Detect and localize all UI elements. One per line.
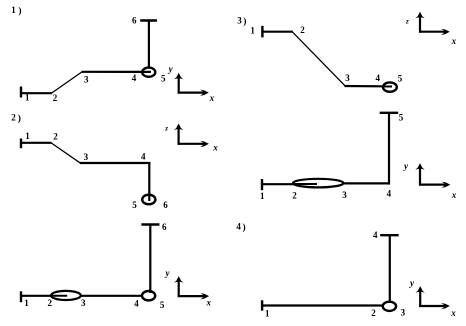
svg-text:2: 2 (48, 298, 53, 308)
fig2 node label 4 (141, 152, 146, 162)
svg-text:6: 6 (132, 16, 137, 26)
svg-text:z: z (164, 125, 168, 133)
mid-right node label 1 (260, 191, 265, 201)
fig1 node label 2 (53, 93, 58, 103)
svg-text:3: 3 (84, 152, 89, 162)
bottom-left node label 2 (48, 298, 53, 308)
svg-text:5: 5 (399, 113, 404, 123)
svg-text:1: 1 (250, 25, 255, 35)
mid-right node label 3 (342, 190, 347, 200)
figure 3 title "3 )" (237, 15, 246, 27)
svg-text:1: 1 (11, 5, 16, 15)
bottom-left axes origin (174, 276, 209, 299)
mid-right link 3-4 (343, 182, 390, 184)
fig4 joint circle node 3 (383, 302, 396, 311)
fig3 link 3-4 (344, 85, 392, 88)
fig2 node label 6 (163, 200, 168, 210)
svg-text:2: 2 (53, 131, 58, 141)
fig1 axis label y (168, 64, 174, 74)
svg-text:1: 1 (25, 93, 30, 103)
fig4 axis label y (409, 278, 415, 288)
svg-text:4: 4 (132, 73, 137, 83)
svg-text:3: 3 (81, 298, 86, 308)
bottom-left sliding joint ellipse 2-3 (51, 291, 81, 300)
svg-text:5: 5 (161, 74, 166, 84)
fig1 link 1-2 (20, 92, 52, 94)
fig4 node label 2 (371, 308, 376, 318)
figure 1 title "1 )" (11, 5, 21, 17)
bottom-left ground tick node 1 (20, 291, 22, 302)
fig1 node label 6 (132, 16, 137, 26)
svg-text:3: 3 (345, 73, 350, 83)
svg-text:x: x (451, 190, 457, 200)
mid-right link 1-2 (261, 183, 317, 185)
fig1 link 3-4 (82, 71, 151, 73)
fig4 node label 3 (401, 308, 406, 318)
bottom-left node label 5 (160, 300, 165, 310)
svg-text:3: 3 (342, 190, 347, 200)
svg-text:4: 4 (373, 230, 378, 240)
fig4 node label 4 (373, 230, 378, 240)
svg-text:4: 4 (141, 152, 146, 162)
fig1 link 2-3 diagonal (51, 72, 82, 94)
svg-text:): ) (18, 6, 21, 17)
fig1 node label 5 (161, 74, 166, 84)
fig3 link 2-3 diagonal (292, 32, 345, 86)
fig4 ground tick node 4 (380, 234, 399, 236)
svg-text:x: x (450, 308, 456, 318)
fig1 ground tick node 6 (140, 19, 157, 21)
fig3 node label 1 (250, 25, 255, 35)
fig4 link 1-2 (261, 304, 392, 306)
mid-right axes origin (415, 163, 450, 188)
fig1 node label 3 (84, 74, 89, 84)
svg-text:6: 6 (162, 222, 167, 232)
svg-text:5: 5 (132, 200, 137, 210)
svg-text:2: 2 (53, 93, 58, 103)
fig1 node label 1 (25, 93, 30, 103)
svg-text:2: 2 (292, 190, 297, 200)
svg-text:1: 1 (260, 191, 265, 201)
mid-right link 4-5 vertical (388, 113, 390, 185)
mid-right sliding joint ellipse 2-3 (293, 179, 344, 188)
fig1 joint circle node 5 (142, 68, 155, 77)
fig1 node label 4 (132, 73, 137, 83)
fig2 axes origin (174, 124, 209, 148)
bottom-left link 5-6 vertical (149, 225, 151, 294)
svg-text:): ) (243, 222, 246, 233)
fig3 link 1-2 (261, 31, 292, 33)
bottom-left link 1-2 (20, 295, 52, 297)
bottom-left axis label y (165, 268, 171, 278)
bottom-left node label 4 (134, 299, 139, 309)
fig3 node label 2 (300, 25, 305, 35)
bottom-left node label 6 (162, 222, 167, 232)
fig2 axis label z (164, 125, 168, 133)
bottom-left joint circle node 5 (142, 291, 155, 300)
fig3 joint circle node 5 (383, 82, 397, 91)
svg-text:): ) (18, 113, 21, 124)
fig4 axes origin (416, 286, 450, 309)
mid-right inner link segment inside ellipse (293, 183, 317, 185)
svg-text:1: 1 (25, 131, 30, 141)
svg-text:5: 5 (160, 300, 165, 310)
svg-text:4: 4 (236, 221, 241, 231)
fig4 node label 1 (265, 309, 270, 319)
svg-text:3: 3 (401, 308, 406, 318)
bottom-left axis label x (206, 298, 212, 308)
mid-right node label 5 (399, 113, 404, 123)
fig1 axes origin (174, 73, 209, 96)
fig4 link 3-4 vertical (389, 235, 391, 302)
svg-text:5: 5 (398, 74, 403, 84)
fig1 ground tick node 1 (20, 87, 22, 98)
fig4 ground tick node 1 (261, 300, 263, 310)
svg-text:x: x (206, 298, 212, 308)
mid-right node label 2 (292, 190, 297, 200)
bottom-left node label 3 (81, 298, 86, 308)
figure 2 title "2 )" (11, 113, 21, 125)
fig3 ground tick node 1 (261, 26, 263, 38)
svg-text:6: 6 (163, 200, 168, 210)
svg-text:4: 4 (387, 189, 392, 199)
mid-right node label 4 (387, 189, 392, 199)
figure 4 title "4 )" (236, 221, 245, 233)
fig2 node label 2 (53, 131, 58, 141)
fig2 joint circle node 5 (142, 195, 155, 205)
svg-text:2: 2 (11, 113, 16, 123)
mid-right ground tick node 5 (380, 112, 399, 114)
fig1 axis label x (209, 93, 215, 103)
mid-right axis label x (451, 190, 457, 200)
fig2 node label 1 (25, 131, 30, 141)
bottom-left link 3-4 (81, 295, 151, 297)
fig3 node label 5 (398, 74, 403, 84)
fig3 axis label x (451, 36, 457, 46)
fig2 link 4-5 vertical (148, 162, 150, 201)
fig2 link 3-4 (80, 162, 150, 164)
svg-text:x: x (451, 36, 457, 46)
svg-text:3: 3 (84, 74, 89, 84)
svg-text:4: 4 (376, 73, 381, 83)
fig2 link 1-2 (20, 142, 51, 144)
svg-text:z: z (405, 17, 409, 25)
mid-right ground tick node 1 (261, 179, 263, 190)
fig3 axes origin (415, 12, 450, 35)
svg-text:4: 4 (134, 299, 139, 309)
fig3 node label 3 (345, 73, 350, 83)
svg-text:2: 2 (371, 308, 376, 318)
fig1 link 5-6 vertical (148, 21, 150, 68)
fig4 axis label x (450, 308, 456, 318)
bottom-left inner link segment inside ellipse (50, 295, 67, 297)
bottom-left ground tick node 6 (141, 223, 159, 225)
svg-text:): ) (243, 16, 246, 27)
fig2 axis label x (212, 143, 218, 153)
fig2 node label 3 (84, 152, 89, 162)
svg-text:x: x (212, 143, 218, 153)
svg-text:3: 3 (237, 15, 242, 25)
svg-text:x: x (209, 93, 215, 103)
mid-right axis label y (403, 161, 409, 171)
fig2 node label 5 (132, 200, 137, 210)
svg-text:1: 1 (265, 309, 270, 319)
fig3 node label 4 (376, 73, 381, 83)
bottom-left node label 1 (24, 298, 29, 308)
svg-text:2: 2 (300, 25, 305, 35)
fig3 axis label z (405, 17, 409, 25)
svg-text:1: 1 (24, 298, 29, 308)
fig2 ground tick node 1 (20, 139, 22, 149)
fig2 link 2-3 diagonal (51, 143, 81, 164)
